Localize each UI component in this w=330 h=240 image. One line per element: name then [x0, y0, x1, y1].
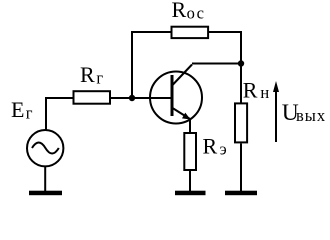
wire: base rail from Eg corner to transistor base — [46, 97, 171, 99]
svg-text:R: R — [172, 0, 187, 22]
svg-text:R: R — [80, 62, 95, 87]
svg-text:R: R — [203, 134, 218, 159]
source Eg — [27, 130, 63, 166]
svg-text:э: э — [220, 140, 227, 159]
resistor Rg — [74, 91, 111, 104]
svg-text:г: г — [96, 69, 103, 88]
svg-text:E: E — [11, 97, 24, 122]
svg-text:вых: вых — [296, 106, 326, 125]
transistor VT body — [150, 72, 202, 124]
wire: Rn to ground — [240, 144, 242, 192]
ground (right) — [225, 191, 257, 196]
wire: emitter down to Re — [189, 119, 191, 132]
emitter arrowhead — [182, 113, 191, 120]
transistor collector lead — [173, 65, 193, 86]
wire: source to ground — [44, 166, 46, 192]
resistor Roc — [172, 27, 209, 38]
svg-text:н: н — [260, 83, 269, 102]
node: base junction — [129, 95, 135, 101]
node: collector junction — [238, 60, 244, 66]
transistor emitter lead — [173, 108, 191, 119]
ground (left) — [29, 191, 62, 196]
resistor Re — [184, 133, 196, 170]
resistor Rn — [235, 103, 247, 142]
wire: left vertical from base rail up to Roc rail — [132, 32, 171, 98]
output arrow — [275, 90, 277, 142]
wire: Roc right side going right then down to Rn — [209, 32, 242, 103]
ground (middle) — [175, 191, 206, 196]
transistor base bar — [171, 75, 174, 116]
wire: collector horizontal to right rail — [192, 63, 241, 65]
wire: Re to ground — [189, 171, 191, 191]
svg-text:R: R — [243, 78, 258, 103]
wire: from base rail corner down to source — [45, 97, 47, 131]
svg-text:ос: ос — [187, 3, 206, 22]
svg-text:г: г — [26, 103, 33, 122]
